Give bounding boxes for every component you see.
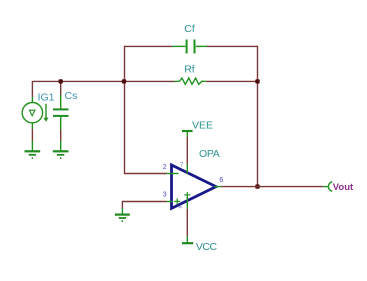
capacitor Cs [53,81,69,151]
plus sign at non-inverting input [174,198,180,204]
ground (under IG1) [25,151,41,158]
ground (under Cs) [53,151,69,158]
wire: Cf branch top-right horizontal [207,45,258,47]
op-amp pin 3 stub (non-inverting input) [167,201,173,203]
svg-text:2: 2 [163,164,167,171]
wire: right vertical from Cf down to output [257,46,259,187]
power terminal VCC [182,209,193,244]
svg-text:6: 6 [219,177,223,184]
capacitor Cf [172,40,207,54]
svg-text:Rf: Rf [184,63,195,75]
ground (pin 3) [115,215,130,222]
op-amp U1 triangle [172,165,217,208]
wire: pin 3 to ground [122,202,166,209]
node B (left vertical / rail junction) [122,79,126,83]
current source IG1 [22,81,48,151]
op-amp VEE pin stub [186,164,188,173]
wire: main rail y=81 left of Rf [32,80,174,82]
svg-text:VCC: VCC [196,241,218,253]
op-amp output stub (pin 6) [214,186,221,188]
svg-text:Cf: Cf [184,23,195,35]
node A (Cs / rail junction) [59,79,63,83]
plus sign at VCC pin [184,192,190,198]
node D (output junction) [255,184,259,188]
svg-text:OPA: OPA [199,148,220,160]
resistor Rf [175,78,207,84]
op-amp VCC pin stub [186,196,188,208]
power terminal VEE [182,131,193,165]
svg-text:IG1: IG1 [38,92,55,104]
svg-text:Vout: Vout [333,182,354,193]
wire: left vertical from Cf down to pin 2 [125,46,167,174]
wire: main rail y=81 right of Rf [206,80,257,82]
wire: output to Vout [221,186,323,188]
svg-text:VEE: VEE [192,120,213,132]
terminal Vout chevron [328,182,332,192]
svg-text:3: 3 [163,192,167,199]
op-amp pin 2 stub (inverting input) [167,173,179,175]
wire: Cf branch top-left horizontal [124,45,172,47]
node C (right vertical / rail junction) [255,79,259,83]
svg-text:Cs: Cs [65,90,78,102]
